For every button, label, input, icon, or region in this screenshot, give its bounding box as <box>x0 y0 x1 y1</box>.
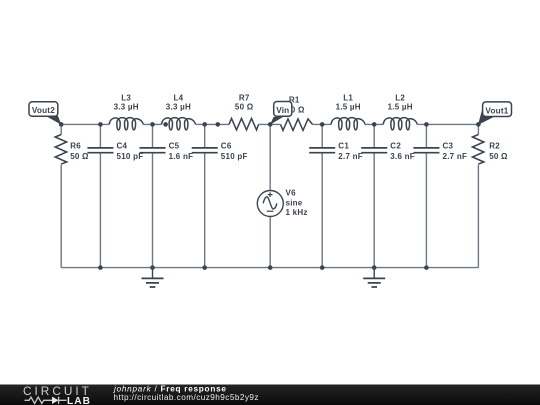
node Vout1 junction dot <box>476 122 481 127</box>
svg-text:510 pF: 510 pF <box>221 152 248 161</box>
wire right column R2 leads <box>477 124 479 267</box>
node C4 bottom junction dot <box>98 265 103 270</box>
wire C2 column <box>373 124 375 267</box>
node C5 top junction dot <box>150 122 155 127</box>
svg-text:sine: sine <box>286 198 303 207</box>
resistor R6 <box>55 135 89 165</box>
wire C6 column <box>204 124 206 267</box>
svg-text:1 kHz: 1 kHz <box>286 208 308 217</box>
svg-text:50 Ω: 50 Ω <box>489 152 508 161</box>
svg-text:2.7 nF: 2.7 nF <box>443 152 468 161</box>
wire C1 column <box>321 124 323 267</box>
wire left column R6 leads <box>60 124 62 267</box>
node C3 top junction dot <box>424 122 429 127</box>
capacitor C4 <box>87 142 143 161</box>
footer title text <box>113 385 259 403</box>
capacitor C6 <box>192 142 248 161</box>
node C2 top junction dot <box>372 122 377 127</box>
wire top rail segment Vout2 to L3 <box>61 123 109 125</box>
capacitor C1 <box>309 142 363 161</box>
wire top rail segment R1 to L1 <box>313 123 332 125</box>
capacitor C5 <box>140 142 194 161</box>
svg-text:C5: C5 <box>169 142 180 151</box>
node C6 bottom junction dot <box>202 265 207 270</box>
svg-text:C3: C3 <box>443 142 454 151</box>
svg-text:C1: C1 <box>338 142 349 151</box>
ground at C2 column <box>363 268 385 287</box>
svg-text:3.3 µH: 3.3 µH <box>166 102 191 111</box>
ground at C5 column <box>142 268 164 287</box>
svg-text:L3: L3 <box>121 93 131 102</box>
svg-text:50 Ω: 50 Ω <box>235 102 254 111</box>
svg-text:Vin: Vin <box>276 106 289 115</box>
inductor L2 <box>383 93 417 130</box>
svg-text:http://circuitlab.com/cuz9h9c5: http://circuitlab.com/cuz9h9c5b2y9z <box>114 393 259 402</box>
svg-text:3.3 µH: 3.3 µH <box>114 102 139 111</box>
capacitor C2 <box>361 142 415 161</box>
inductor L1 <box>331 93 365 130</box>
footer bar <box>0 385 540 405</box>
svg-text:L2: L2 <box>395 93 405 102</box>
wire top rail segment L2 to Vout1 <box>417 123 478 125</box>
resistor R7 <box>229 93 259 130</box>
node C1 bottom junction dot <box>320 265 325 270</box>
wire C4 column <box>99 124 101 267</box>
svg-text:R7: R7 <box>239 93 250 102</box>
voltage source V6 <box>257 189 307 218</box>
svg-text:1.5 µH: 1.5 µH <box>388 102 413 111</box>
wire C5 column <box>152 124 154 267</box>
wire top rail segment L3 to L4 <box>143 123 161 125</box>
svg-text:C6: C6 <box>221 142 232 151</box>
svg-text:0 Ω: 0 Ω <box>291 105 305 114</box>
svg-text:Vout2: Vout2 <box>32 106 55 115</box>
svg-text:1.6 nF: 1.6 nF <box>169 152 194 161</box>
CircuitLab logo <box>23 384 92 405</box>
svg-text:R2: R2 <box>489 142 500 151</box>
node wire junction dot left of R7 <box>216 122 221 127</box>
net flag Vout1 <box>478 102 512 125</box>
wire bottom rail <box>61 267 478 269</box>
svg-text:R6: R6 <box>70 142 81 151</box>
node C5 bottom junction dot <box>150 265 155 270</box>
svg-text:C2: C2 <box>390 142 401 151</box>
resistor R2 <box>472 135 508 165</box>
inductor L4 <box>162 93 196 130</box>
node C2 bottom junction dot <box>372 265 377 270</box>
inductor L3 <box>109 93 143 130</box>
wire top rail segment L4 to R7 <box>196 123 230 125</box>
net flag Vin <box>270 102 292 125</box>
node C3 bottom junction dot <box>424 265 429 270</box>
node Vout2 junction dot <box>59 122 64 127</box>
svg-text:Vout1: Vout1 <box>485 106 508 115</box>
node C6 top junction dot <box>202 122 207 127</box>
svg-text:2.7 nF: 2.7 nF <box>338 152 363 161</box>
svg-text:510 pF: 510 pF <box>117 152 144 161</box>
node V6 bottom junction dot <box>268 265 273 270</box>
node C1 top junction dot <box>320 122 325 127</box>
svg-text:1.5 µH: 1.5 µH <box>336 102 361 111</box>
node C4 top junction dot <box>98 122 103 127</box>
capacitor C3 <box>413 142 467 161</box>
svg-text:L4: L4 <box>173 93 183 102</box>
wire top rail segment R7 to R1 <box>259 123 281 125</box>
svg-text:3.6 nF: 3.6 nF <box>390 152 415 161</box>
node Vin junction dot <box>268 122 273 127</box>
wire top rail segment L1 to L2 <box>365 123 383 125</box>
wire C3 column <box>425 124 427 267</box>
svg-text:L1: L1 <box>343 93 353 102</box>
resistor R1 <box>281 96 313 131</box>
svg-text:V6: V6 <box>286 189 297 198</box>
svg-text:C4: C4 <box>117 142 128 151</box>
wire V6 column <box>269 124 271 267</box>
svg-text:LAB: LAB <box>67 396 91 405</box>
svg-text:50 Ω: 50 Ω <box>70 152 89 161</box>
node L4 left terminal dot <box>163 122 168 127</box>
net flag Vout2 <box>29 102 61 125</box>
